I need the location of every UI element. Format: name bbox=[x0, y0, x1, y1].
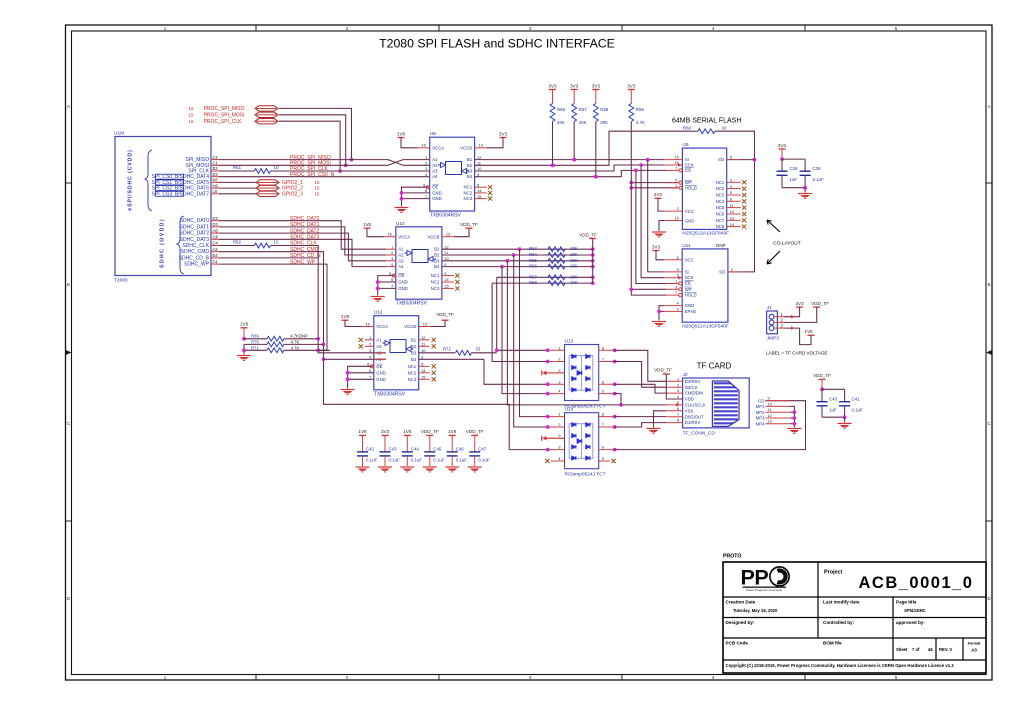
svg-text:SI: SI bbox=[685, 157, 689, 162]
svg-text:SI: SI bbox=[685, 269, 689, 274]
svg-text:9: 9 bbox=[768, 397, 770, 401]
wire PROC_SPI_CLK row bbox=[219, 170, 430, 172]
svg-text:H6: H6 bbox=[213, 228, 219, 233]
svg-text:Last modify date: Last modify date bbox=[823, 600, 860, 605]
svg-text:5: 5 bbox=[602, 457, 604, 461]
svg-text:GND: GND bbox=[376, 377, 386, 382]
resistor R60 33 bbox=[683, 126, 727, 134]
svg-text:B2: B2 bbox=[467, 163, 473, 168]
svg-text:CS: CS bbox=[685, 281, 691, 286]
svg-text:1: 1 bbox=[558, 413, 560, 417]
wire bus vertical to U13 pin2 bbox=[492, 283, 548, 361]
svg-text:R58: R58 bbox=[600, 107, 609, 112]
svg-text:B1: B1 bbox=[467, 157, 473, 162]
wire bus vertical to U14 pin2 bbox=[514, 255, 548, 427]
ground for U10 bbox=[371, 276, 396, 302]
wire SPI_CLK to flash SCK bbox=[475, 165, 664, 171]
svg-text:DNP: DNP bbox=[716, 243, 726, 248]
svg-text:6: 6 bbox=[602, 380, 604, 384]
svg-text:1V8: 1V8 bbox=[240, 322, 249, 327]
svg-text:3V3: 3V3 bbox=[778, 143, 787, 148]
svg-text:R67: R67 bbox=[529, 274, 537, 279]
serial flash U9 N25Q512A13GF840F bbox=[664, 142, 746, 237]
svg-text:B: B bbox=[67, 282, 70, 287]
svg-text:PROC_SPI_CLK: PROC_SPI_CLK bbox=[204, 119, 242, 125]
svg-text:9: 9 bbox=[558, 434, 560, 438]
svg-text:D0/DOUT: D0/DOUT bbox=[685, 414, 704, 419]
svg-text:13: 13 bbox=[423, 322, 427, 326]
wire SDHC_CMD down to U12.A4 bbox=[219, 252, 548, 450]
svg-text:3V3: 3V3 bbox=[592, 83, 601, 88]
svg-text:HOLD: HOLD bbox=[685, 185, 697, 190]
off-page connector GPIO2_3 bbox=[219, 191, 320, 197]
svg-text:SO: SO bbox=[719, 269, 726, 274]
ground for R70 R71 bbox=[237, 344, 251, 360]
svg-text:F4: F4 bbox=[213, 259, 219, 264]
resistor R69 4.7K DNP bbox=[242, 333, 318, 341]
svg-text:SDHC_DAT0: SDHC_DAT0 bbox=[180, 218, 210, 224]
svg-text:PROC_SPI_MISO: PROC_SPI_MISO bbox=[204, 106, 245, 112]
level shifter U12 TXB0304RSV bbox=[359, 310, 436, 398]
svg-text:VDD_TF: VDD_TF bbox=[436, 312, 454, 317]
net label SDHC_CLK bbox=[290, 241, 317, 247]
power 1V8 for C46 bbox=[448, 429, 457, 452]
svg-text:L6: L6 bbox=[213, 189, 218, 194]
ground for C46 bbox=[445, 467, 459, 472]
svg-text:OE: OE bbox=[376, 364, 382, 369]
svg-text:NC3: NC3 bbox=[408, 377, 417, 382]
svg-text:NC2: NC2 bbox=[463, 190, 472, 195]
ground for C41 bbox=[838, 417, 852, 428]
off-page connector PROC_SPI_CLK bbox=[189, 119, 278, 125]
off-page connector GPIO2_2 bbox=[219, 185, 320, 191]
svg-text:D3/CS: D3/CS bbox=[685, 385, 698, 390]
ground for J2 MP pins bbox=[787, 406, 801, 433]
resistor R61 10 bbox=[233, 165, 279, 173]
svg-text:9: 9 bbox=[675, 179, 677, 183]
svg-text:C46: C46 bbox=[456, 446, 465, 451]
svg-text:1uF: 1uF bbox=[790, 177, 798, 182]
resistor R59 4.7K bbox=[629, 104, 645, 126]
svg-text:13: 13 bbox=[479, 144, 483, 148]
off-page connector GPIO2_1 bbox=[219, 180, 320, 186]
svg-text:B2: B2 bbox=[213, 166, 219, 171]
svg-text:2: 2 bbox=[677, 383, 679, 387]
svg-text:2: 2 bbox=[677, 207, 679, 211]
power VDD_TF for J2 bbox=[654, 367, 683, 399]
svg-text:ACB_0001_0: ACB_0001_0 bbox=[859, 574, 974, 592]
wire bus to U11 SCK bbox=[639, 163, 664, 278]
svg-text:7: 7 bbox=[675, 291, 677, 295]
svg-text:U12: U12 bbox=[374, 310, 383, 316]
svg-text:20K: 20K bbox=[570, 280, 578, 285]
ESD clamp U13 RClamp0524J.TCT bbox=[546, 339, 617, 410]
svg-text:SCK: SCK bbox=[685, 163, 694, 168]
svg-text:20K: 20K bbox=[557, 120, 565, 125]
svg-text:B3: B3 bbox=[411, 350, 417, 355]
svg-text:3: 3 bbox=[558, 446, 560, 450]
svg-text:TXB0304RSV: TXB0304RSV bbox=[430, 213, 462, 219]
resistor R56 20K bbox=[550, 104, 566, 126]
svg-text:A3: A3 bbox=[213, 247, 219, 252]
capacitor C40 1uF bbox=[817, 387, 838, 417]
resistor R71 4.7K bbox=[244, 345, 330, 352]
capacitor C46 0.1uF bbox=[447, 446, 468, 466]
svg-text:4.7KDNP: 4.7KDNP bbox=[290, 333, 308, 338]
svg-text:NC6: NC6 bbox=[716, 212, 725, 217]
svg-text:U13: U13 bbox=[565, 339, 574, 345]
power 3V3 for C36 bbox=[778, 143, 787, 159]
svg-text:3: 3 bbox=[675, 285, 677, 289]
ESD clamp U14 RClamp0524J.TCT bbox=[545, 407, 616, 478]
svg-text:15: 15 bbox=[675, 156, 679, 160]
power 1V8 for R69 bbox=[240, 322, 249, 339]
wire TF_CLK U13 branch bbox=[615, 394, 621, 405]
wire SPI_CS0_N to flash CS bbox=[475, 170, 666, 178]
svg-text:10: 10 bbox=[274, 240, 279, 245]
svg-text:R57: R57 bbox=[579, 107, 588, 112]
svg-text:3: 3 bbox=[425, 167, 427, 171]
svg-text:D1/RSV: D1/RSV bbox=[685, 420, 701, 425]
svg-text:C1: C1 bbox=[213, 161, 219, 166]
resistor R70 4.7K bbox=[244, 339, 324, 346]
svg-text:1V8: 1V8 bbox=[363, 222, 372, 227]
svg-text:Creation Date: Creation Date bbox=[726, 600, 756, 605]
net label SDHC_CD_N bbox=[290, 253, 321, 259]
power 3V3 for C43 bbox=[381, 429, 390, 452]
serial flash U11 N25Q512A13GF840F DNP bbox=[664, 243, 740, 330]
svg-text:A2: A2 bbox=[376, 344, 382, 349]
svg-text:64MB SERIAL FLASH: 64MB SERIAL FLASH bbox=[672, 118, 741, 125]
wire HOLD net row bbox=[629, 186, 678, 190]
svg-text:1: 1 bbox=[675, 280, 677, 284]
svg-text:15: 15 bbox=[189, 106, 194, 111]
svg-text:SDHC_DAT2: SDHC_DAT2 bbox=[180, 231, 210, 237]
svg-text:C42: C42 bbox=[366, 446, 375, 451]
sheet title bbox=[379, 37, 615, 51]
svg-text:A3: A3 bbox=[971, 648, 977, 653]
svg-text:0.1uF: 0.1uF bbox=[433, 458, 445, 463]
power VDD_TF for C40 bbox=[813, 373, 831, 389]
svg-text:SDHC_CD_B: SDHC_CD_B bbox=[179, 255, 210, 261]
svg-text:C47: C47 bbox=[478, 446, 487, 451]
svg-text:16: 16 bbox=[366, 322, 370, 326]
heading TF CARD bbox=[697, 362, 732, 371]
svg-text:Project: Project bbox=[824, 570, 842, 576]
svg-text:PP: PP bbox=[741, 566, 769, 590]
svg-text:15: 15 bbox=[315, 191, 320, 196]
svg-text:1V8: 1V8 bbox=[448, 429, 457, 434]
wire TF_CMD U13 to J2 bbox=[615, 384, 667, 393]
svg-text:PROTO: PROTO bbox=[723, 554, 741, 560]
svg-text:0.1uF: 0.1uF bbox=[478, 458, 490, 463]
wire R59 column to WP HOLD bbox=[629, 122, 666, 296]
svg-text:R72: R72 bbox=[443, 347, 451, 352]
svg-text:2: 2 bbox=[558, 423, 560, 427]
svg-text:G6: G6 bbox=[213, 235, 219, 240]
resistor R58 20K bbox=[593, 104, 609, 126]
ground for U8 bbox=[395, 187, 430, 212]
svg-text:NC1: NC1 bbox=[431, 273, 440, 278]
svg-text:A4: A4 bbox=[398, 264, 404, 269]
svg-text:RClamp0524J.TCT: RClamp0524J.TCT bbox=[565, 472, 606, 478]
svg-text:0.1uF: 0.1uF bbox=[456, 458, 468, 463]
wire PROC_SPI_MISO from connector bbox=[279, 108, 353, 161]
svg-text:C36: C36 bbox=[790, 166, 799, 171]
svg-text:CMD/DIN: CMD/DIN bbox=[685, 391, 703, 396]
svg-text:BOM file: BOM file bbox=[823, 641, 842, 646]
svg-text:GND: GND bbox=[432, 190, 442, 195]
svg-text:U11: U11 bbox=[682, 243, 691, 249]
wire pull-up R56 to bus bbox=[551, 122, 555, 168]
svg-text:7: 7 bbox=[677, 413, 679, 417]
wire PROC_SPI_MOSI row bbox=[219, 160, 430, 166]
svg-text:MP4: MP4 bbox=[756, 421, 765, 426]
svg-text:WP: WP bbox=[685, 287, 692, 292]
wire SPI_MISO to serial flash bbox=[475, 158, 664, 162]
svg-text:A1: A1 bbox=[376, 337, 382, 342]
svg-text:7: 7 bbox=[602, 358, 604, 362]
svg-text:VCCB: VCCB bbox=[404, 324, 416, 329]
wire SDHC_CLK down to U12 bbox=[219, 246, 386, 353]
resistor R57 20K bbox=[572, 104, 588, 126]
svg-text:K6: K6 bbox=[213, 178, 219, 183]
svg-text:SCK: SCK bbox=[685, 275, 694, 280]
wire pull-up R57 to bus bbox=[572, 122, 576, 162]
svg-text:NC5: NC5 bbox=[716, 205, 725, 210]
svg-text:4: 4 bbox=[558, 390, 560, 394]
power 1V8 for U12 bbox=[341, 314, 362, 327]
svg-text:2: 2 bbox=[558, 358, 560, 362]
resistor R65 20K bbox=[529, 258, 578, 263]
svg-text:REV. 0: REV. 0 bbox=[939, 647, 953, 652]
svg-text:VDD_TF: VDD_TF bbox=[813, 373, 831, 378]
svg-text:3V3: 3V3 bbox=[499, 131, 508, 136]
svg-text:SDHC (OVDD): SDHC (OVDD) bbox=[160, 218, 166, 268]
svg-text:SO: SO bbox=[718, 157, 725, 162]
svg-text:3: 3 bbox=[369, 349, 371, 353]
svg-text:R59: R59 bbox=[636, 107, 645, 112]
wire bus vertical to U14 pin1 bbox=[520, 249, 548, 416]
connector J2 TF_CONN_CD bbox=[666, 372, 790, 436]
wire TF_D1 U14 to J2 bbox=[615, 423, 667, 427]
power VDD_TF for U12 bbox=[431, 312, 454, 327]
net label SDHC_DAT1 bbox=[290, 222, 320, 228]
net label PROC_SPI_CLK bbox=[290, 166, 328, 172]
wire bus to U11 CS bbox=[634, 169, 666, 284]
svg-text:1V8: 1V8 bbox=[403, 429, 412, 434]
svg-text:GND: GND bbox=[685, 303, 695, 308]
power 1V8 for U10 bbox=[363, 222, 384, 237]
resistor R64 20K bbox=[529, 252, 578, 257]
svg-text:GND: GND bbox=[432, 196, 442, 201]
svg-text:U14: U14 bbox=[565, 407, 574, 413]
power 3V3 for U11 bbox=[652, 244, 664, 259]
svg-text:7 of: 7 of bbox=[912, 647, 920, 652]
svg-text:R69: R69 bbox=[251, 333, 259, 338]
ground for C47 bbox=[468, 467, 482, 472]
svg-text:33: 33 bbox=[476, 347, 481, 352]
svg-text:TF_CONN_CD: TF_CONN_CD bbox=[683, 430, 716, 436]
svg-text:N25Q512A13GF840F: N25Q512A13GF840F bbox=[682, 231, 729, 237]
svg-text:4: 4 bbox=[558, 457, 560, 461]
svg-text:4.7K: 4.7K bbox=[291, 339, 300, 344]
svg-text:OE: OE bbox=[398, 273, 404, 278]
svg-text:Page title: Page title bbox=[896, 600, 917, 605]
svg-text:16: 16 bbox=[421, 144, 425, 148]
svg-text:VDD_TF: VDD_TF bbox=[466, 429, 484, 434]
wire pull-up R58 to bus bbox=[594, 122, 598, 179]
svg-text:GPIO2_3: GPIO2_3 bbox=[282, 191, 303, 197]
svg-text:VCCB: VCCB bbox=[460, 145, 472, 150]
net label SDHC_WP bbox=[290, 259, 316, 265]
net label PROC_SPI_MISO bbox=[290, 155, 331, 161]
svg-text:2: 2 bbox=[731, 268, 733, 272]
svg-text:20K: 20K bbox=[600, 120, 608, 125]
svg-text:VCC: VCC bbox=[685, 209, 694, 214]
capacitor C39 0.1uF bbox=[782, 159, 824, 190]
svg-text:11: 11 bbox=[768, 408, 772, 412]
svg-text:U10: U10 bbox=[396, 221, 405, 227]
wire PROC_SPI_MISO row bbox=[219, 160, 430, 166]
level shifter U10 TXB0304RSV bbox=[384, 221, 460, 307]
co-layout note bbox=[767, 220, 801, 264]
svg-text:R63: R63 bbox=[529, 246, 537, 251]
capacitor C47 0.1uF bbox=[469, 446, 490, 466]
svg-text:C41: C41 bbox=[852, 396, 861, 401]
svg-text:CS: CS bbox=[685, 168, 691, 173]
svg-text:Copyright (C) 2018-2019, Power: Copyright (C) 2018-2019, Power Progress … bbox=[726, 663, 955, 668]
svg-text:B2: B2 bbox=[434, 253, 440, 258]
svg-text:A: A bbox=[988, 104, 991, 109]
svg-text:10: 10 bbox=[274, 165, 279, 170]
svg-text:A1: A1 bbox=[432, 157, 438, 162]
svg-text:1: 1 bbox=[425, 156, 427, 160]
svg-text:C40: C40 bbox=[829, 396, 838, 401]
svg-text:VDD_TF: VDD_TF bbox=[460, 222, 478, 227]
resistor R68 20K bbox=[529, 280, 578, 285]
power 3V3 for U9 bbox=[654, 192, 664, 211]
ground for C45 bbox=[423, 467, 437, 472]
svg-text:R66: R66 bbox=[529, 264, 537, 269]
power 1V8 for J1 bbox=[784, 326, 815, 344]
svg-text:VCCB: VCCB bbox=[427, 234, 439, 239]
svg-text:VCC: VCC bbox=[685, 257, 694, 262]
svg-text:C: C bbox=[67, 421, 70, 426]
svg-text:1V8: 1V8 bbox=[804, 329, 813, 334]
clamp diode symbol U14 pin9 bbox=[542, 436, 565, 441]
svg-text:33: 33 bbox=[722, 126, 727, 131]
capacitor C43 0.1uF bbox=[380, 446, 401, 466]
wire SDHC_CD_N row bbox=[219, 257, 318, 259]
svg-text:NC1: NC1 bbox=[463, 185, 472, 190]
svg-text:Format: Format bbox=[968, 642, 982, 646]
svg-text:1: 1 bbox=[558, 346, 560, 350]
ground for C43 bbox=[378, 467, 392, 472]
svg-text:8: 8 bbox=[730, 156, 732, 160]
svg-text:15: 15 bbox=[315, 186, 320, 191]
wire PROC_SPI_MOSI from connector bbox=[279, 115, 348, 167]
svg-text:GND: GND bbox=[398, 286, 408, 291]
svg-text:MP2: MP2 bbox=[756, 410, 765, 415]
svg-text:TXB0304RSV: TXB0304RSV bbox=[396, 301, 428, 307]
svg-text:N25Q512A13GF840F: N25Q512A13GF840F bbox=[682, 324, 729, 330]
svg-text:6: 6 bbox=[602, 446, 604, 450]
ground for U9 bbox=[652, 221, 666, 237]
svg-text:13: 13 bbox=[768, 420, 772, 424]
power VDD_TF for J1 bbox=[784, 301, 829, 323]
wire TF_D3 U13 to J2 bbox=[615, 362, 667, 388]
svg-text:7: 7 bbox=[602, 423, 604, 427]
svg-text:15: 15 bbox=[315, 180, 320, 185]
wire TF_D2 U13 to J2 bbox=[615, 350, 667, 381]
svg-text:D: D bbox=[987, 596, 990, 601]
svg-text:3V3: 3V3 bbox=[381, 429, 390, 434]
svg-text:4: 4 bbox=[369, 356, 371, 360]
resistor R72 33 bbox=[419, 347, 497, 356]
svg-text:B: B bbox=[988, 282, 991, 287]
svg-text:R65: R65 bbox=[529, 258, 537, 263]
capacitor C42 0.1uF bbox=[357, 446, 378, 466]
svg-text:1V8: 1V8 bbox=[341, 314, 350, 319]
capacitor C36 1uF bbox=[777, 157, 799, 187]
svg-text:SDHC_WP: SDHC_WP bbox=[184, 262, 210, 268]
svg-text:GND: GND bbox=[398, 280, 408, 285]
capacitor C45 0.1uF bbox=[424, 446, 445, 466]
svg-text:5: 5 bbox=[602, 390, 604, 394]
svg-text:CLK/SCLK: CLK/SCLK bbox=[685, 403, 706, 408]
svg-text:E3: E3 bbox=[213, 172, 219, 177]
svg-text:T2080 SPI FLASH and SDHC INTER: T2080 SPI FLASH and SDHC INTERFACE bbox=[379, 37, 615, 51]
wire TF_DAT rows from U10 bbox=[442, 247, 595, 268]
ground for J2 VSS bbox=[647, 411, 667, 434]
ground for C39 bbox=[798, 188, 812, 199]
svg-text:TXB0304RSV: TXB0304RSV bbox=[374, 391, 406, 397]
net label PROC_SPI_MOSI bbox=[290, 161, 331, 167]
svg-text:U1M: U1M bbox=[114, 130, 124, 136]
svg-text:CD: CD bbox=[758, 398, 764, 403]
svg-text:A1: A1 bbox=[398, 247, 404, 252]
svg-text:SDHC_CLK: SDHC_CLK bbox=[182, 243, 209, 249]
svg-text:Designed by:: Designed by: bbox=[726, 620, 755, 625]
power VDD_TF pull-up rail bbox=[579, 232, 597, 283]
svg-text:B1: B1 bbox=[411, 337, 417, 342]
svg-text:4: 4 bbox=[425, 173, 427, 177]
svg-text:3V3: 3V3 bbox=[796, 301, 805, 306]
wire SO rail bbox=[715, 131, 756, 272]
power VDD_TF for U10 bbox=[454, 222, 478, 237]
svg-text:3: 3 bbox=[558, 380, 560, 384]
svg-text:NC1: NC1 bbox=[716, 180, 725, 185]
svg-text:R70: R70 bbox=[251, 339, 259, 344]
wire bus to U11 SI bbox=[648, 160, 664, 272]
svg-text:3V3: 3V3 bbox=[548, 83, 557, 88]
svg-text:NC2: NC2 bbox=[431, 280, 440, 285]
wire bus vertical to U13 pin1 bbox=[495, 277, 548, 352]
svg-text:C45: C45 bbox=[433, 446, 442, 451]
svg-text:Sheet: Sheet bbox=[896, 647, 908, 652]
svg-text:VCCA: VCCA bbox=[432, 145, 444, 150]
svg-text:GND: GND bbox=[685, 218, 695, 223]
svg-text:PROC_SPI_MOSI: PROC_SPI_MOSI bbox=[204, 112, 245, 118]
svg-text:4: 4 bbox=[677, 302, 679, 306]
capacitor C41 0.1uF bbox=[822, 389, 863, 419]
wire bus vertical TF CLK to J2 bbox=[507, 261, 666, 407]
svg-text:8: 8 bbox=[677, 256, 679, 260]
net label SDHC_DAT3 bbox=[290, 235, 320, 241]
power VDD_TF for C45 bbox=[421, 429, 439, 452]
svg-text:0.1uF: 0.1uF bbox=[852, 408, 864, 413]
